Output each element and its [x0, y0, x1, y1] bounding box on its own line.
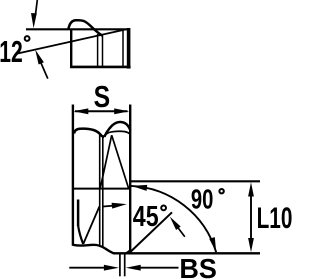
main view: center double line right	[102, 137, 104, 249]
BS extension line left	[119, 254, 121, 276]
top view: 12 deg reference horizontal line	[26, 28, 129, 30]
main view: V right arm	[83, 207, 99, 244]
main view: mid leader arrow shaft	[103, 205, 114, 208]
45 deg line	[130, 212, 172, 252]
BS left arrowhead	[104, 265, 119, 271]
top view: insert body bottom edge	[70, 66, 131, 69]
BS right dim line	[138, 267, 179, 269]
main view: top-right hump	[104, 122, 130, 137]
90 deg arc top arrowhead	[131, 185, 147, 191]
svg-text:45: 45	[133, 201, 159, 233]
top view: insert body right edge (thick)	[127, 28, 131, 69]
90 deg arc	[131, 186, 217, 252]
main view: lambda left leg	[100, 135, 112, 188]
top view: 12 deg slanted line	[17, 29, 127, 53]
90 deg arc bottom arrowhead	[209, 237, 216, 252]
S dimension line	[75, 110, 128, 112]
12 deg top arrowhead	[31, 13, 37, 28]
main view: mid leader arrowhead	[112, 203, 127, 209]
svg-text:BS: BS	[179, 253, 217, 279]
BS extension line right	[124, 254, 126, 276]
svg-text:12: 12	[0, 35, 23, 69]
top view: insert body left edge	[70, 29, 72, 69]
top view: center double line right	[102, 36, 104, 67]
BS left dim line	[69, 267, 106, 269]
12 deg bottom arrowhead	[35, 50, 44, 65]
45 deg leader tail	[178, 228, 185, 237]
top view: hump curve	[68, 20, 103, 36]
top view: inner right line	[122, 31, 124, 67]
top view: center double line left	[97, 34, 99, 66]
main view: top-left curve	[74, 129, 104, 137]
main view: inner flat line under hump	[103, 131, 130, 137]
L10 top extension line	[131, 180, 261, 182]
svg-text:90: 90	[191, 183, 214, 214]
L10 top arrowhead	[248, 182, 254, 196]
main view: bottom right rise	[126, 250, 130, 253]
main view: facet bend to V vertex	[78, 226, 83, 244]
degree symbol of 45	[161, 206, 166, 211]
main view: center double line left	[99, 135, 101, 246]
45 deg leader arrowhead	[170, 217, 181, 230]
S right arrowhead	[114, 108, 129, 114]
main view: bottom edge	[73, 245, 115, 254]
svg-text:L10: L10	[257, 202, 293, 235]
degree symbol of 90	[219, 189, 223, 193]
12 deg bottom arrow leader	[41, 63, 48, 79]
L10 bottom arrowhead	[248, 238, 254, 252]
main view: interior horizontal line	[74, 188, 130, 190]
main view: lambda right leg	[112, 135, 129, 188]
degree symbol of 12	[25, 36, 30, 41]
BS right arrowhead	[126, 265, 141, 271]
main view: thick short vertical facet	[77, 200, 80, 227]
S left arrowhead	[73, 108, 88, 114]
L10 dimension line	[250, 196, 252, 238]
svg-text:S: S	[94, 80, 111, 114]
12 deg top arrow leader	[36, 0, 38, 14]
main view: right edge + S extension line	[129, 105, 131, 254]
baseline bottom line	[114, 252, 260, 254]
main view: left edge + S extension line	[72, 105, 74, 246]
